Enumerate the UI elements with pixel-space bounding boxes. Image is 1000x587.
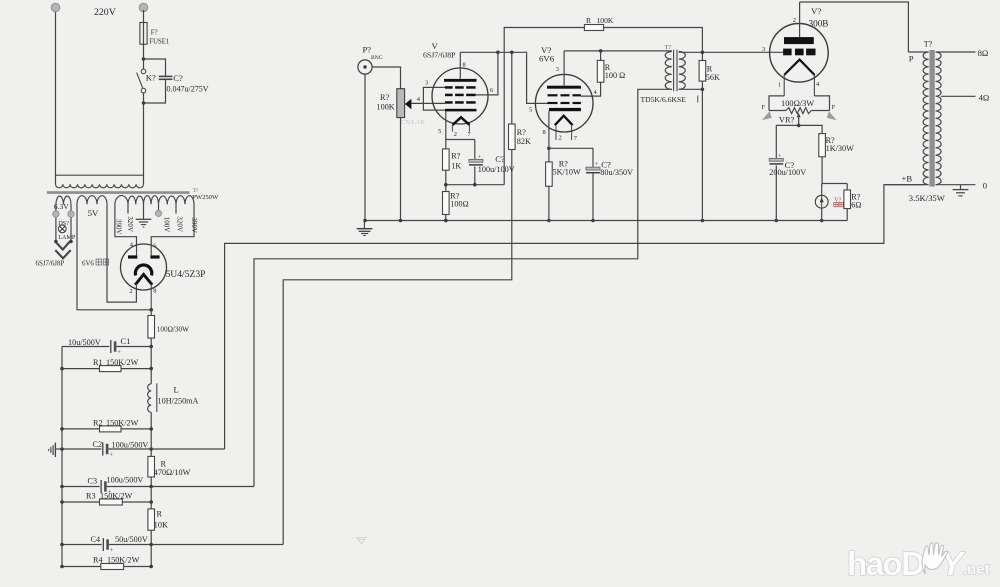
- svg-text:10K: 10K: [154, 521, 168, 530]
- winding 5V: [77, 196, 107, 205]
- tap 390V left to plate pin4: [115, 204, 137, 251]
- transformer T? core: [47, 191, 190, 194]
- node 6.3V left: [54, 240, 58, 244]
- svg-text:3: 3: [425, 80, 428, 87]
- svg-text:50u/500V: 50u/500V: [115, 535, 148, 544]
- svg-text:F: F: [762, 104, 766, 111]
- choke L 10H/250mA: [148, 384, 152, 412]
- resistor R 470ohm/10W: [148, 456, 155, 477]
- svg-text:V: V: [432, 41, 439, 51]
- plate line 6V6 to TD5K: [564, 50, 672, 52]
- plate node line 6SJ7: [460, 51, 526, 53]
- pin 2 lead 6V6: [555, 126, 557, 140]
- svg-text:0: 0: [983, 180, 987, 190]
- svg-text:P: P: [909, 54, 914, 64]
- svg-text:100Ω/30W: 100Ω/30W: [157, 326, 189, 334]
- svg-text:L: L: [174, 385, 179, 395]
- svg-text:C3: C3: [88, 477, 98, 486]
- TD5K core lines: [673, 50, 675, 91]
- lamp DS? across 6.3V: [58, 225, 66, 233]
- svg-text:4: 4: [417, 96, 421, 103]
- screen pin 6 riser: [476, 52, 498, 95]
- tap 100V with terminal: [158, 204, 160, 210]
- svg-text:1K/30W: 1K/30W: [826, 144, 854, 153]
- svg-text:P?: P?: [363, 44, 372, 54]
- svg-text:390V: 390V: [114, 219, 122, 235]
- winding 6.3V: [56, 196, 71, 204]
- svg-text:470Ω/10W: 470Ω/10W: [154, 468, 191, 477]
- svg-text:80u/350V: 80u/350V: [600, 168, 633, 177]
- ground symbol OPT: [960, 185, 962, 190]
- ground symbol main: [363, 221, 365, 229]
- pin 2 lead of 5U4: [135, 284, 137, 288]
- filament of 5U4: [135, 265, 151, 275]
- pin 7 lead 6V6: [571, 126, 573, 140]
- svg-text:1: 1: [778, 82, 781, 89]
- rectifier tube V 5U4/5Z3P: [121, 244, 167, 290]
- watermark triangle: [357, 538, 366, 545]
- cathode junction wire: [446, 139, 475, 141]
- cathode pin 8 lead 6V6: [548, 111, 550, 148]
- svg-text:BNC: BNC: [371, 55, 383, 61]
- cathode node wire: [446, 184, 504, 186]
- wire pot bottom to ground bus: [400, 118, 402, 221]
- grid g3 row: [445, 86, 453, 89]
- pin 1 lead 300B: [783, 75, 785, 96]
- svg-text:K?: K?: [146, 73, 156, 83]
- svg-text:100Ω: 100Ω: [450, 199, 468, 208]
- svg-text:100u/100V: 100u/100V: [478, 165, 515, 174]
- terminal 220V right: [139, 3, 148, 12]
- filament 6V6: [555, 116, 573, 126]
- svg-text:F?: F?: [151, 30, 158, 37]
- svg-text:100V: 100V: [162, 217, 170, 233]
- svg-text:T?: T?: [665, 45, 672, 51]
- svg-text:5: 5: [529, 107, 532, 114]
- svg-text:R1: R1: [93, 358, 103, 367]
- right B+ bus upper: [150, 347, 152, 384]
- pin 2 lead: [451, 125, 453, 132]
- pin 4 lead 300B: [813, 75, 815, 96]
- terminal 6.3V left: [53, 211, 59, 217]
- node pin8 B+ takeoff: [149, 308, 153, 312]
- svg-text:R: R: [157, 510, 163, 519]
- filament bracket left F: [769, 96, 784, 111]
- svg-text:+: +: [778, 152, 782, 159]
- svg-text:FUSE1: FUSE1: [149, 39, 169, 46]
- wire wiper left branch: [776, 125, 798, 158]
- cathode bar 6SJ7: [445, 109, 477, 112]
- tap 390V right to plate pin6: [151, 204, 194, 251]
- tap 320V left: [127, 204, 129, 213]
- svg-text:6SJ7/6J8P: 6SJ7/6J8P: [423, 51, 456, 60]
- grid riser 6V6: [527, 52, 548, 103]
- svg-text:56K: 56K: [706, 73, 720, 82]
- svg-text:R?: R?: [517, 128, 526, 137]
- svg-text:6Ω: 6Ω: [851, 201, 861, 210]
- svg-text:4: 4: [816, 81, 820, 88]
- top rail right of R100K: [604, 28, 703, 53]
- transformer T? PW250W primary winding: [56, 174, 144, 176]
- OPT primary winding: [908, 51, 928, 53]
- grid g2 row: [445, 94, 453, 97]
- resistor R? 82K plate load: [511, 52, 513, 124]
- svg-text:+B: +B: [902, 173, 913, 183]
- plate bar 6V6: [547, 86, 581, 89]
- tap center ground: [143, 204, 145, 219]
- resistor R4 150K/2W: [62, 566, 101, 568]
- svg-text:150K/2W: 150K/2W: [107, 555, 140, 564]
- resistor R3 150K/2W: [62, 501, 100, 503]
- svg-text:6SJ7/6J8P: 6SJ7/6J8P: [36, 260, 65, 267]
- svg-text:C?: C?: [495, 154, 505, 164]
- plate bar 6SJ7: [444, 79, 477, 82]
- svg-text:4Ω: 4Ω: [979, 92, 990, 102]
- feedback riser to top rail: [504, 28, 584, 185]
- svg-text:+: +: [478, 153, 482, 160]
- resistor R? 5K/10W: [546, 162, 553, 186]
- switch K?: [143, 59, 145, 69]
- svg-text:150K/2W: 150K/2W: [106, 358, 139, 367]
- svg-text:+: +: [109, 451, 113, 458]
- wire B+ rail 3 from C4 to R82K: [283, 150, 512, 545]
- svg-text:320V: 320V: [126, 216, 134, 232]
- svg-text:100u/500V: 100u/500V: [112, 440, 149, 449]
- filament 300B: [784, 60, 814, 75]
- suppressor strap pin 3: [423, 87, 445, 110]
- svg-text:320V: 320V: [175, 216, 183, 232]
- ground symbol left: [55, 448, 62, 450]
- plate bar 300B: [784, 37, 814, 44]
- wiper arrow VR?: [797, 113, 801, 118]
- svg-text:390V: 390V: [190, 217, 198, 233]
- svg-text:haoD: haoD: [847, 545, 924, 582]
- wire pot wiper to grid pin 4: [411, 102, 445, 104]
- fuse F? FUSE1: [140, 23, 147, 45]
- resistor R2 150K/2W: [62, 428, 100, 430]
- svg-text:LAMP: LAMP: [58, 234, 76, 241]
- svg-text:3.5K/35W: 3.5K/35W: [909, 193, 946, 203]
- svg-text:6V6: 6V6: [539, 53, 555, 63]
- OPT 4 ohm tap: [941, 95, 976, 97]
- pin 2 plate lead 300B: [799, 2, 801, 37]
- svg-text:.net: .net: [963, 561, 990, 578]
- svg-text:2: 2: [793, 17, 796, 24]
- resistor R? 1K/30W: [819, 134, 826, 157]
- OPT secondary winding: [936, 52, 941, 185]
- svg-text:R?: R?: [451, 152, 460, 161]
- svg-text:10u/500V: 10u/500V: [68, 338, 101, 347]
- svg-text:3: 3: [762, 46, 765, 53]
- svg-text:V?: V?: [811, 6, 821, 16]
- svg-text:F: F: [832, 104, 836, 111]
- ground bus main: [365, 220, 847, 222]
- svg-text:C?: C?: [173, 73, 183, 83]
- svg-text:VR?: VR?: [779, 116, 795, 125]
- resistor R 10K: [148, 509, 155, 530]
- resistor R 56K grid leak: [701, 52, 703, 60]
- svg-text:100u/500V: 100u/500V: [107, 475, 144, 484]
- node B mains: [142, 101, 146, 105]
- svg-text:C1: C1: [121, 336, 131, 346]
- left ground bus: [61, 347, 63, 567]
- svg-text:2: 2: [454, 131, 457, 138]
- svg-text:1K: 1K: [451, 162, 461, 171]
- svg-text:100Ω/3W: 100Ω/3W: [781, 99, 814, 108]
- capacitor C? 100u/100V cathode bypass: [474, 140, 476, 160]
- wire mains left vertical: [55, 10, 57, 184]
- grid dashes 300B: [783, 49, 792, 56]
- filament bracket right F: [814, 96, 829, 111]
- filament 6SJ7: [453, 117, 470, 125]
- grid rows 6V6: [548, 94, 558, 96]
- svg-text:82K: 82K: [517, 137, 531, 146]
- right bus mid: [150, 412, 152, 456]
- svg-text:0.047u/275V: 0.047u/275V: [167, 85, 209, 94]
- capacitor C? 200u/100V: [769, 158, 783, 161]
- svg-text:4: 4: [594, 89, 598, 96]
- wire 5V left to pin8 node: [77, 204, 151, 309]
- svg-text:8: 8: [543, 129, 546, 136]
- OPT 8 ohm tap: [936, 51, 976, 53]
- capacitor C? 80a/350V: [592, 148, 594, 167]
- arrow F right gray: [827, 111, 837, 120]
- wire OPT primary bottom: [884, 184, 929, 186]
- wire B+ rail 1 from C2 to output transformer: [225, 185, 925, 449]
- svg-text:220V: 220V: [94, 7, 116, 18]
- resistor R 100ohm screen: [597, 60, 604, 82]
- svg-text:7: 7: [468, 131, 472, 138]
- svg-text:6: 6: [490, 87, 493, 94]
- TD5K secondary top to 300B grid: [679, 51, 783, 53]
- svg-text:5K/10W: 5K/10W: [553, 168, 581, 177]
- wire 6.3V right: [70, 204, 72, 241]
- svg-text:+: +: [595, 161, 599, 168]
- resistor 100ohm/30W: [150, 310, 152, 316]
- svg-text:7: 7: [574, 135, 578, 142]
- cathode pin 5 lead: [445, 111, 447, 139]
- svg-text:8Ω: 8Ω: [978, 48, 989, 58]
- svg-text:R: R: [586, 16, 592, 25]
- plate top rail 300B to OPT: [800, 2, 909, 52]
- TD5K primary winding: [665, 52, 672, 90]
- svg-text:200u/100V: 200u/100V: [769, 168, 806, 177]
- capacitor C4 50u/500V: [62, 544, 102, 546]
- terminal 220V left: [51, 3, 60, 12]
- svg-text:6V6: 6V6: [82, 260, 94, 267]
- resistor R? 1K cathode: [443, 149, 450, 170]
- pin 7 lead: [468, 125, 470, 132]
- wire wiper right branch: [799, 125, 822, 133]
- resistor R? 100ohm: [443, 192, 450, 215]
- wire mains right top: [143, 10, 145, 59]
- svg-text:8: 8: [153, 287, 156, 294]
- svg-text:CN LAB: CN LAB: [401, 119, 426, 126]
- svg-text:T?: T?: [924, 40, 933, 49]
- svg-text:100K: 100K: [377, 103, 395, 112]
- TD5K secondary winding: [679, 52, 686, 90]
- cathode bar 6V6: [549, 108, 581, 111]
- watermark haoDIY.net logo: [847, 545, 990, 582]
- tap 320V right: [175, 204, 177, 213]
- pin 8 plate lead: [459, 52, 461, 79]
- svg-text:+: +: [117, 349, 121, 356]
- wire to primary: [143, 103, 145, 184]
- svg-text:R?: R?: [380, 93, 389, 102]
- svg-text:R2: R2: [93, 418, 103, 427]
- resistor R 100K feedback: [584, 25, 603, 31]
- wire BNC to pot: [372, 67, 400, 89]
- wire 5V right to pin2: [107, 204, 136, 302]
- TD5K secondary bottom: [679, 88, 703, 90]
- node A mains: [142, 57, 146, 61]
- pin 8 lead of 5U4: [150, 284, 152, 310]
- svg-text:100 Ω: 100 Ω: [605, 71, 625, 80]
- wire BNC ground: [364, 74, 366, 220]
- potentiometer R? 100K: [397, 89, 405, 118]
- OPT 0 tap: [936, 184, 976, 186]
- svg-text:150K/2W: 150K/2W: [106, 418, 139, 427]
- svg-text:R3: R3: [86, 491, 96, 500]
- svg-text:PW250W: PW250W: [192, 194, 219, 201]
- cathode junction 6V6: [549, 147, 593, 149]
- arrow F left gray: [762, 111, 772, 120]
- resistor R1 150K/2W: [62, 368, 100, 370]
- meter V? current meter: [821, 184, 823, 196]
- svg-text:C2: C2: [93, 440, 103, 449]
- svg-text:2: 2: [559, 135, 562, 142]
- plate right of 5U4: [150, 255, 159, 258]
- resistor R? 6ohm meter shunt: [846, 184, 848, 191]
- hum pot VR? 100ohm/3W zigzag: [769, 110, 786, 112]
- svg-text:C4: C4: [91, 535, 101, 544]
- heater arrow chevron 2: [55, 250, 70, 258]
- svg-text:5: 5: [438, 128, 441, 135]
- capacitor C2 100u/500V: [62, 448, 101, 450]
- svg-text:5V: 5V: [88, 208, 99, 218]
- capacitor C3 100u/500V: [62, 486, 100, 488]
- svg-text:8: 8: [463, 62, 466, 69]
- svg-text:2: 2: [130, 288, 133, 295]
- heater arrow chevron 1: [55, 242, 70, 250]
- capacitor C1 10u/500V: [62, 346, 109, 348]
- svg-text:150K/2W: 150K/2W: [100, 491, 133, 500]
- pin 3 plate lead 6V6: [563, 51, 565, 86]
- svg-text:TD5K/6.6KSE: TD5K/6.6KSE: [641, 95, 687, 104]
- capacitor C? 0.047u/275V across switch: [144, 59, 166, 76]
- svg-text:5U4/5Z3P: 5U4/5Z3P: [166, 269, 206, 280]
- terminal 6.3V right: [68, 211, 74, 217]
- winding HV secondary: [115, 196, 128, 205]
- svg-text:100K: 100K: [597, 16, 614, 25]
- node 6.3V right: [69, 240, 73, 244]
- watermark hand glyph: [922, 543, 948, 574]
- svg-text:3: 3: [556, 66, 559, 73]
- wire meter parallel top: [822, 183, 847, 185]
- wire B+ rail 2 from C3 to TD5K primary: [254, 89, 672, 486]
- svg-text:+: +: [110, 547, 114, 554]
- OPT core bar: [929, 50, 934, 187]
- wire 6.3V left: [55, 204, 57, 241]
- grid g1 row: [445, 101, 453, 104]
- svg-text:10H/250mA: 10H/250mA: [158, 397, 199, 406]
- node C1 right: [149, 345, 153, 349]
- plate left of 5U4: [128, 255, 137, 258]
- svg-text:R4: R4: [93, 555, 103, 564]
